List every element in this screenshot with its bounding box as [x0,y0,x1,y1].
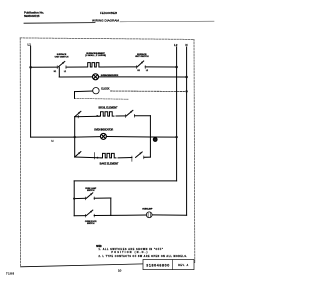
svg-text:CLOCK: CLOCK [101,87,110,91]
svg-text:L1: L1 [51,140,53,142]
svg-text:318046800: 318046800 [146,264,169,268]
svg-text:N: N [185,43,187,47]
svg-text:L1: L1 [27,43,31,47]
svg-text:BROIL ELEMENT: BROIL ELEMENT [99,107,118,110]
svg-text:L2: L2 [146,70,148,72]
svg-text:L2: L2 [174,43,178,47]
svg-text:UNIT SWITCH: UNIT SWITCH [55,56,69,58]
svg-text:5995343725: 5995343725 [24,14,40,18]
svg-text:1. ALL SWITCHES ARE SHOWN IN ": 1. ALL SWITCHES ARE SHOWN IN "OFF" [99,248,164,251]
svg-text:L1: L1 [64,71,66,73]
svg-text:SWITCH: SWITCH [87,190,95,192]
svg-text:UNIT SWITCH: UNIT SWITCH [135,56,149,58]
svg-text:H2: H2 [137,70,139,72]
svg-text:NOTES:: NOTES: [96,244,102,248]
svg-text:FED300BEB: FED300BEB [100,11,117,15]
svg-text:7188: 7188 [6,271,14,275]
svg-text:SURFACE INDICATOR: SURFACE INDICATOR [101,74,119,77]
svg-text:10: 10 [118,268,122,272]
svg-text:OVEN LAMP: OVEN LAMP [142,207,153,210]
svg-text:BAKE ELEMENT: BAKE ELEMENT [100,163,119,166]
svg-text:REV. A: REV. A [178,264,188,267]
svg-text:WIRING DIAGRAM: WIRING DIAGRAM [92,19,119,23]
svg-text:SWITCH: SWITCH [87,223,95,225]
svg-text:H1: H1 [54,71,56,73]
svg-text:OVEN INDICATOR: OVEN INDICATOR [94,129,113,132]
svg-text:POSITION (N.O.): POSITION (N.O.) [111,252,147,254]
svg-text:(1 SMALL, 2 LARGE): (1 SMALL, 2 LARGE) [85,54,106,57]
svg-text:2. L TYPE CONTACTS OF SW ARE O: 2. L TYPE CONTACTS OF SW ARE OPEN ON ALL… [99,255,188,258]
